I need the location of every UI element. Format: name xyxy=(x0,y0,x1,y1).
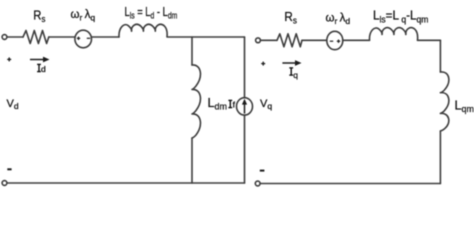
label - (q-axis port) xyxy=(260,170,265,172)
wire xyxy=(191,138,193,183)
wire xyxy=(92,36,120,38)
svg-text:Lqm: Lqm xyxy=(455,99,474,115)
svg-text:Rs: Rs xyxy=(33,8,45,24)
inductor Lqm (q-axis magnetizing) xyxy=(440,72,448,131)
svg-text:Rs: Rs xyxy=(284,10,297,26)
wire xyxy=(439,131,441,184)
resistor Rs (d-axis stator resistance) xyxy=(23,31,49,44)
label Id xyxy=(37,64,41,71)
svg-text:ωr λd: ωr λd xyxy=(326,13,351,27)
wire xyxy=(302,39,327,41)
polarity - inside left source xyxy=(87,37,90,39)
polarity + inside left source xyxy=(77,37,80,40)
resistor Rs (q-axis stator resistance) xyxy=(277,34,302,47)
current direction arrow Id xyxy=(30,57,50,63)
wire xyxy=(439,40,441,72)
svg-text:Lls = Ld - Ldm: Lls = Ld - Ldm xyxy=(125,5,178,20)
current direction arrow Iq xyxy=(282,60,301,66)
svg-text:Lls=L q-Lqm: Lls=L q-Lqm xyxy=(373,8,428,24)
svg-text:Vd: Vd xyxy=(7,98,19,111)
terminal: q-axis negative input xyxy=(255,181,260,186)
label If xyxy=(228,100,232,107)
polarity + inside right source xyxy=(337,40,340,43)
wire: d-axis bottom return xyxy=(7,182,245,184)
wire: q-axis bottom return xyxy=(260,183,440,185)
label + (q-axis port) xyxy=(261,62,265,66)
wire xyxy=(7,36,23,38)
terminal: d-axis negative input xyxy=(2,181,7,186)
wire xyxy=(343,39,370,41)
label - (d-axis port) xyxy=(7,168,11,170)
polarity - inside right source xyxy=(330,40,333,42)
inductor Lls = Ld - Ldm (d-axis leakage) xyxy=(119,24,167,37)
inductor Ldm (d-axis magnetizing) xyxy=(192,65,200,138)
svg-text:q: q xyxy=(293,70,298,80)
wire: vertical branch to Ldm xyxy=(191,37,193,65)
arrow inside current source If xyxy=(242,99,247,114)
terminal: d-axis positive input xyxy=(2,35,7,40)
dependent source wr*lambda_d (speed voltage) xyxy=(327,31,343,49)
wire xyxy=(168,36,245,38)
terminal: q-axis positive input xyxy=(256,38,261,43)
current source If (field current) xyxy=(237,98,253,115)
wire: vertical branch to current source xyxy=(244,37,246,98)
label Iq xyxy=(289,68,293,75)
svg-text:Vq: Vq xyxy=(260,98,272,111)
svg-text:d: d xyxy=(41,64,46,74)
wire xyxy=(418,39,441,41)
svg-text:Ldm: Ldm xyxy=(208,96,227,112)
wire xyxy=(49,36,75,38)
wire xyxy=(260,39,277,41)
inductor Lls = Lq - Lqm (q-axis leakage) xyxy=(369,28,417,41)
svg-text:ωr λq: ωr λq xyxy=(71,9,96,23)
svg-text:f: f xyxy=(233,100,236,110)
label + (d-axis port) xyxy=(7,57,11,61)
dependent source wr*lambda_q (speed voltage) xyxy=(75,30,92,48)
wire xyxy=(244,115,246,183)
